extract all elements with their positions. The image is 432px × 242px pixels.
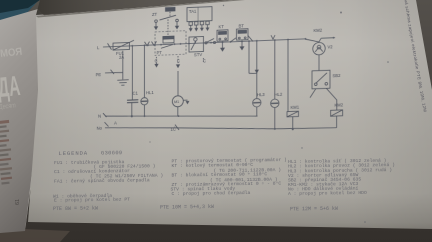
svg-text:No: No	[97, 125, 103, 130]
svg-text:C1: C1	[133, 90, 139, 95]
svg-text:A : propoj pro kotel bez HDO: A : propoj pro kotel bez HDO	[288, 190, 367, 197]
svg-text:G30609: G30609	[101, 150, 123, 156]
svg-text:A: A	[114, 120, 117, 125]
svg-text:E : propoj pro kotel bez PT: E : propoj pro kotel bez PT	[54, 197, 130, 204]
svg-text:PTE 12M = 5+6 kW: PTE 12M = 5+6 kW	[290, 206, 338, 213]
svg-text:PTE 8W = 5+2 kW: PTE 8W = 5+2 kW	[53, 206, 98, 213]
svg-text:V2: V2	[328, 44, 334, 49]
svg-text:C : propoj pro chod čerpadla: C : propoj pro chod čerpadla	[172, 190, 251, 197]
svg-text:C: C	[177, 58, 180, 63]
svg-text:HL2: HL2	[275, 92, 283, 97]
svg-text:KT: KT	[219, 24, 225, 29]
svg-text:C: C	[155, 58, 158, 63]
svg-text:HL1: HL1	[146, 90, 154, 95]
svg-text:SB2: SB2	[333, 73, 342, 78]
svg-text:KM2: KM2	[335, 103, 344, 108]
svg-text:N: N	[98, 113, 101, 118]
svg-text:C: C	[203, 58, 206, 63]
svg-text:TA1: TA1	[189, 9, 197, 14]
svg-text:KM2: KM2	[314, 28, 323, 33]
svg-text:M1: M1	[174, 100, 179, 104]
svg-text:BT: BT	[239, 23, 245, 28]
svg-text:ZT: ZT	[152, 12, 158, 17]
svg-text:PE: PE	[96, 72, 102, 77]
svg-text:HL3: HL3	[257, 92, 265, 97]
svg-text:KM1: KM1	[291, 105, 300, 110]
svg-text:1Č: 1Č	[171, 127, 176, 132]
svg-text:LEGENDA: LEGENDA	[59, 150, 88, 157]
svg-text:PT: PT	[157, 50, 163, 55]
svg-text:2A: 2A	[119, 55, 124, 60]
svg-text:PTE 10M = 5+4,3 kW: PTE 10M = 5+4,3 kW	[160, 204, 214, 211]
svg-text:STV: STV	[194, 52, 202, 57]
